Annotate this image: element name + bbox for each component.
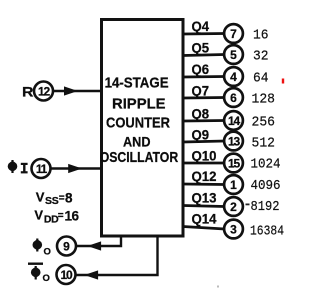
wire Q9 to pin 13 [183, 141, 225, 142]
arrowhead phi O [87, 241, 101, 250]
pin circle 12 [34, 82, 53, 101]
svg-text:Q10: Q10 [192, 148, 217, 164]
phi O symbol [33, 239, 43, 252]
pin circle 2 [224, 197, 243, 216]
wire Q8 to pin 14 [183, 119, 225, 122]
pin circle 5 [224, 45, 243, 64]
svg-text:32: 32 [253, 50, 269, 65]
svg-text:16: 16 [253, 29, 269, 44]
svg-text:COUNTER: COUNTER [106, 114, 170, 131]
svg-text:Q13: Q13 [192, 190, 217, 206]
pin circle 11 [32, 159, 51, 178]
stray gray dot [217, 286, 219, 288]
wire phi-bar O output [76, 235, 158, 275]
pin circle 10 [57, 265, 76, 284]
svg-text:3: 3 [230, 222, 237, 236]
svg-text:8192: 8192 [251, 200, 280, 215]
svg-text:2: 2 [230, 200, 237, 214]
pin circle 6 [224, 88, 243, 107]
svg-text:O: O [43, 273, 50, 284]
wire Q14 to pin 3 [183, 227, 225, 230]
svg-text:Q12: Q12 [192, 168, 217, 184]
svg-text:14-STAGE: 14-STAGE [105, 75, 169, 92]
svg-text:7: 7 [230, 27, 237, 41]
svg-text:6: 6 [230, 91, 237, 105]
wire Q6 to pin 4 [183, 75, 225, 78]
svg-text:Q5: Q5 [192, 40, 210, 56]
svg-text:10: 10 [61, 268, 73, 282]
pin circle 14 [224, 111, 243, 130]
phi-bar O symbol [31, 266, 41, 280]
svg-text:256: 256 [252, 116, 276, 131]
pin circle 15 [224, 154, 243, 173]
svg-text:O: O [44, 247, 51, 258]
svg-text:OSCILLATOR: OSCILLATOR [100, 149, 179, 166]
pin circle 4 [224, 67, 243, 86]
pin circle 13 [224, 132, 243, 151]
svg-text:AND: AND [123, 133, 151, 149]
svg-text:RIPPLE: RIPPLE [112, 95, 166, 112]
svg-text:128: 128 [252, 93, 276, 108]
svg-text:9: 9 [63, 239, 70, 253]
svg-text:Q14: Q14 [192, 211, 217, 227]
stray red tick [282, 79, 284, 84]
svg-text:1024: 1024 [251, 158, 281, 173]
svg-text:512: 512 [252, 137, 276, 152]
svg-text:14: 14 [228, 114, 240, 128]
svg-text:16384: 16384 [250, 225, 284, 240]
pin circle 7 [224, 24, 243, 43]
wire phi O output [77, 235, 122, 246]
pin circle 1 [224, 175, 243, 194]
IC U1 14-stage ripple counter box [102, 20, 184, 237]
arrowhead R input [64, 86, 78, 95]
wire Q13 to pin 2 [183, 206, 225, 207]
wire Q10 to pin 15 [183, 162, 225, 165]
wire Q12 to pin 1 [183, 183, 225, 186]
svg-text:Q6: Q6 [192, 61, 210, 77]
wire Q4 to pin 7 [183, 32, 225, 35]
svg-text:15: 15 [228, 156, 240, 170]
wire phi I input [51, 167, 101, 169]
svg-text:Q4: Q4 [192, 18, 210, 34]
phi I letter I [21, 163, 28, 174]
arrowhead phi-bar O [84, 270, 98, 279]
wire Q7 to pin 6 [183, 96, 225, 99]
svg-text:Q7: Q7 [192, 83, 210, 99]
svg-text:12: 12 [38, 84, 50, 98]
svg-text:R: R [22, 83, 34, 99]
pin circle 9 [57, 237, 76, 256]
wire R input [54, 90, 102, 92]
phi I symbol [8, 160, 18, 173]
wire Q5 to pin 5 [183, 55, 225, 56]
svg-text:5: 5 [230, 48, 237, 62]
stray dash before 8192 [246, 204, 250, 206]
svg-text:11: 11 [36, 162, 48, 176]
svg-text:4: 4 [230, 70, 237, 84]
svg-text:Q9: Q9 [192, 127, 210, 143]
svg-text:64: 64 [253, 72, 269, 87]
arrowhead phi I input [68, 164, 82, 173]
svg-text:13: 13 [228, 134, 240, 148]
phi-bar O overbar [28, 263, 43, 265]
svg-text:Q8: Q8 [192, 106, 210, 122]
svg-text:4096: 4096 [251, 179, 281, 194]
pin circle 3 [224, 220, 243, 239]
svg-text:1: 1 [230, 178, 237, 192]
